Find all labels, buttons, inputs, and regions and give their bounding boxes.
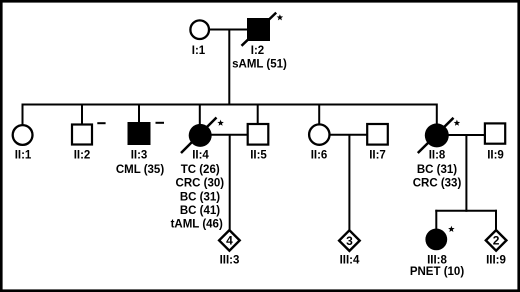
svg-text:II:7: II:7: [369, 150, 386, 162]
svg-text:III:9: III:9: [486, 254, 506, 266]
svg-text:2: 2: [493, 234, 500, 248]
individual II:6 circle: [309, 124, 329, 144]
wire gen II sibship line: [22, 104, 438, 106]
individual I:2 filled square: [247, 18, 270, 41]
individual II:2 square: [72, 125, 92, 145]
individual III:9 diamond with 2: [486, 230, 507, 251]
asterisk II:8: [454, 120, 460, 126]
wire I:1 to I:2 marriage line: [208, 29, 249, 31]
svg-text:III:4: III:4: [340, 254, 360, 266]
svg-text:CML (35): CML (35): [116, 164, 165, 176]
svg-text:II:1: II:1: [15, 150, 32, 162]
individual II:4 filled circle: [189, 124, 212, 147]
svg-text:II:3: II:3: [131, 150, 148, 162]
svg-text:II:2: II:2: [74, 150, 91, 162]
svg-text:II:9: II:9: [487, 150, 504, 162]
svg-text:TC (26): TC (26): [181, 164, 220, 176]
wire drop to III:8: [435, 210, 437, 231]
svg-text:II:4: II:4: [192, 150, 209, 162]
wire gen III right sibship line: [435, 210, 497, 212]
wire II:6 to II:7 marriage line: [328, 134, 368, 136]
slash deceased II:4: [181, 118, 217, 154]
asterisk I:2: [277, 14, 283, 20]
minus mark II:2: [97, 122, 105, 124]
wire drop to II:2: [81, 104, 83, 126]
wire drop to II:5: [257, 104, 259, 126]
wire drop to II:8: [436, 104, 438, 127]
svg-text:III:3: III:3: [220, 254, 240, 266]
wire drop to II:3: [138, 104, 140, 125]
asterisk II:4: [217, 120, 223, 126]
individual III:8 filled circle: [425, 229, 447, 251]
svg-text:I:2: I:2: [251, 45, 264, 57]
asterisk III:8: [448, 226, 454, 232]
svg-text:3: 3: [346, 234, 353, 248]
svg-text:4: 4: [226, 234, 233, 248]
individual II:5 square: [248, 124, 269, 145]
wire drop to II:4: [199, 104, 201, 127]
individual II:1 circle: [13, 125, 33, 145]
svg-text:sAML (51): sAML (51): [232, 59, 287, 71]
individual III:3 diamond with 4: [219, 230, 240, 251]
wire II:8 to II:9 marriage line: [447, 134, 485, 136]
individual II:9 square: [485, 123, 505, 143]
svg-text:PNET (10): PNET (10): [410, 266, 464, 278]
svg-text:II:5: II:5: [250, 150, 267, 162]
wire drop to III:9: [495, 210, 497, 231]
svg-text:tAML (46): tAML (46): [171, 219, 223, 231]
individual II:3 filled square: [128, 122, 151, 145]
individual III:4 diamond with 3: [339, 230, 360, 251]
wire drop to II:1: [22, 104, 24, 127]
svg-text:CRC (30): CRC (30): [176, 178, 225, 190]
individual II:8 filled circle: [425, 123, 449, 147]
individual I:1 circle: [190, 20, 209, 39]
svg-text:BC (41): BC (41): [180, 205, 220, 217]
svg-text:BC (31): BC (31): [417, 164, 457, 176]
wire drop from II:4/II:5 to III:3: [229, 135, 231, 231]
wire drop to II:6: [318, 104, 320, 127]
svg-text:CRC (33): CRC (33): [413, 178, 462, 190]
slash deceased II:8: [418, 118, 454, 153]
svg-text:BC (31): BC (31): [180, 191, 220, 203]
wire II:4 to II:5 marriage line: [210, 134, 248, 136]
individual II:7 square: [367, 124, 388, 145]
svg-text:II:6: II:6: [311, 150, 328, 162]
wire drop from II:8/II:9 to gen III sibship: [465, 135, 467, 212]
wire drop from II:6/II:7 to III:4: [348, 135, 350, 231]
svg-text:III:8: III:8: [427, 254, 447, 266]
wire drop from I couple to gen II sibship: [228, 30, 230, 106]
svg-text:II:8: II:8: [429, 150, 446, 162]
svg-text:I:1: I:1: [192, 45, 206, 57]
minus mark II:3: [156, 122, 165, 124]
slash deceased I:2: [242, 13, 277, 46]
